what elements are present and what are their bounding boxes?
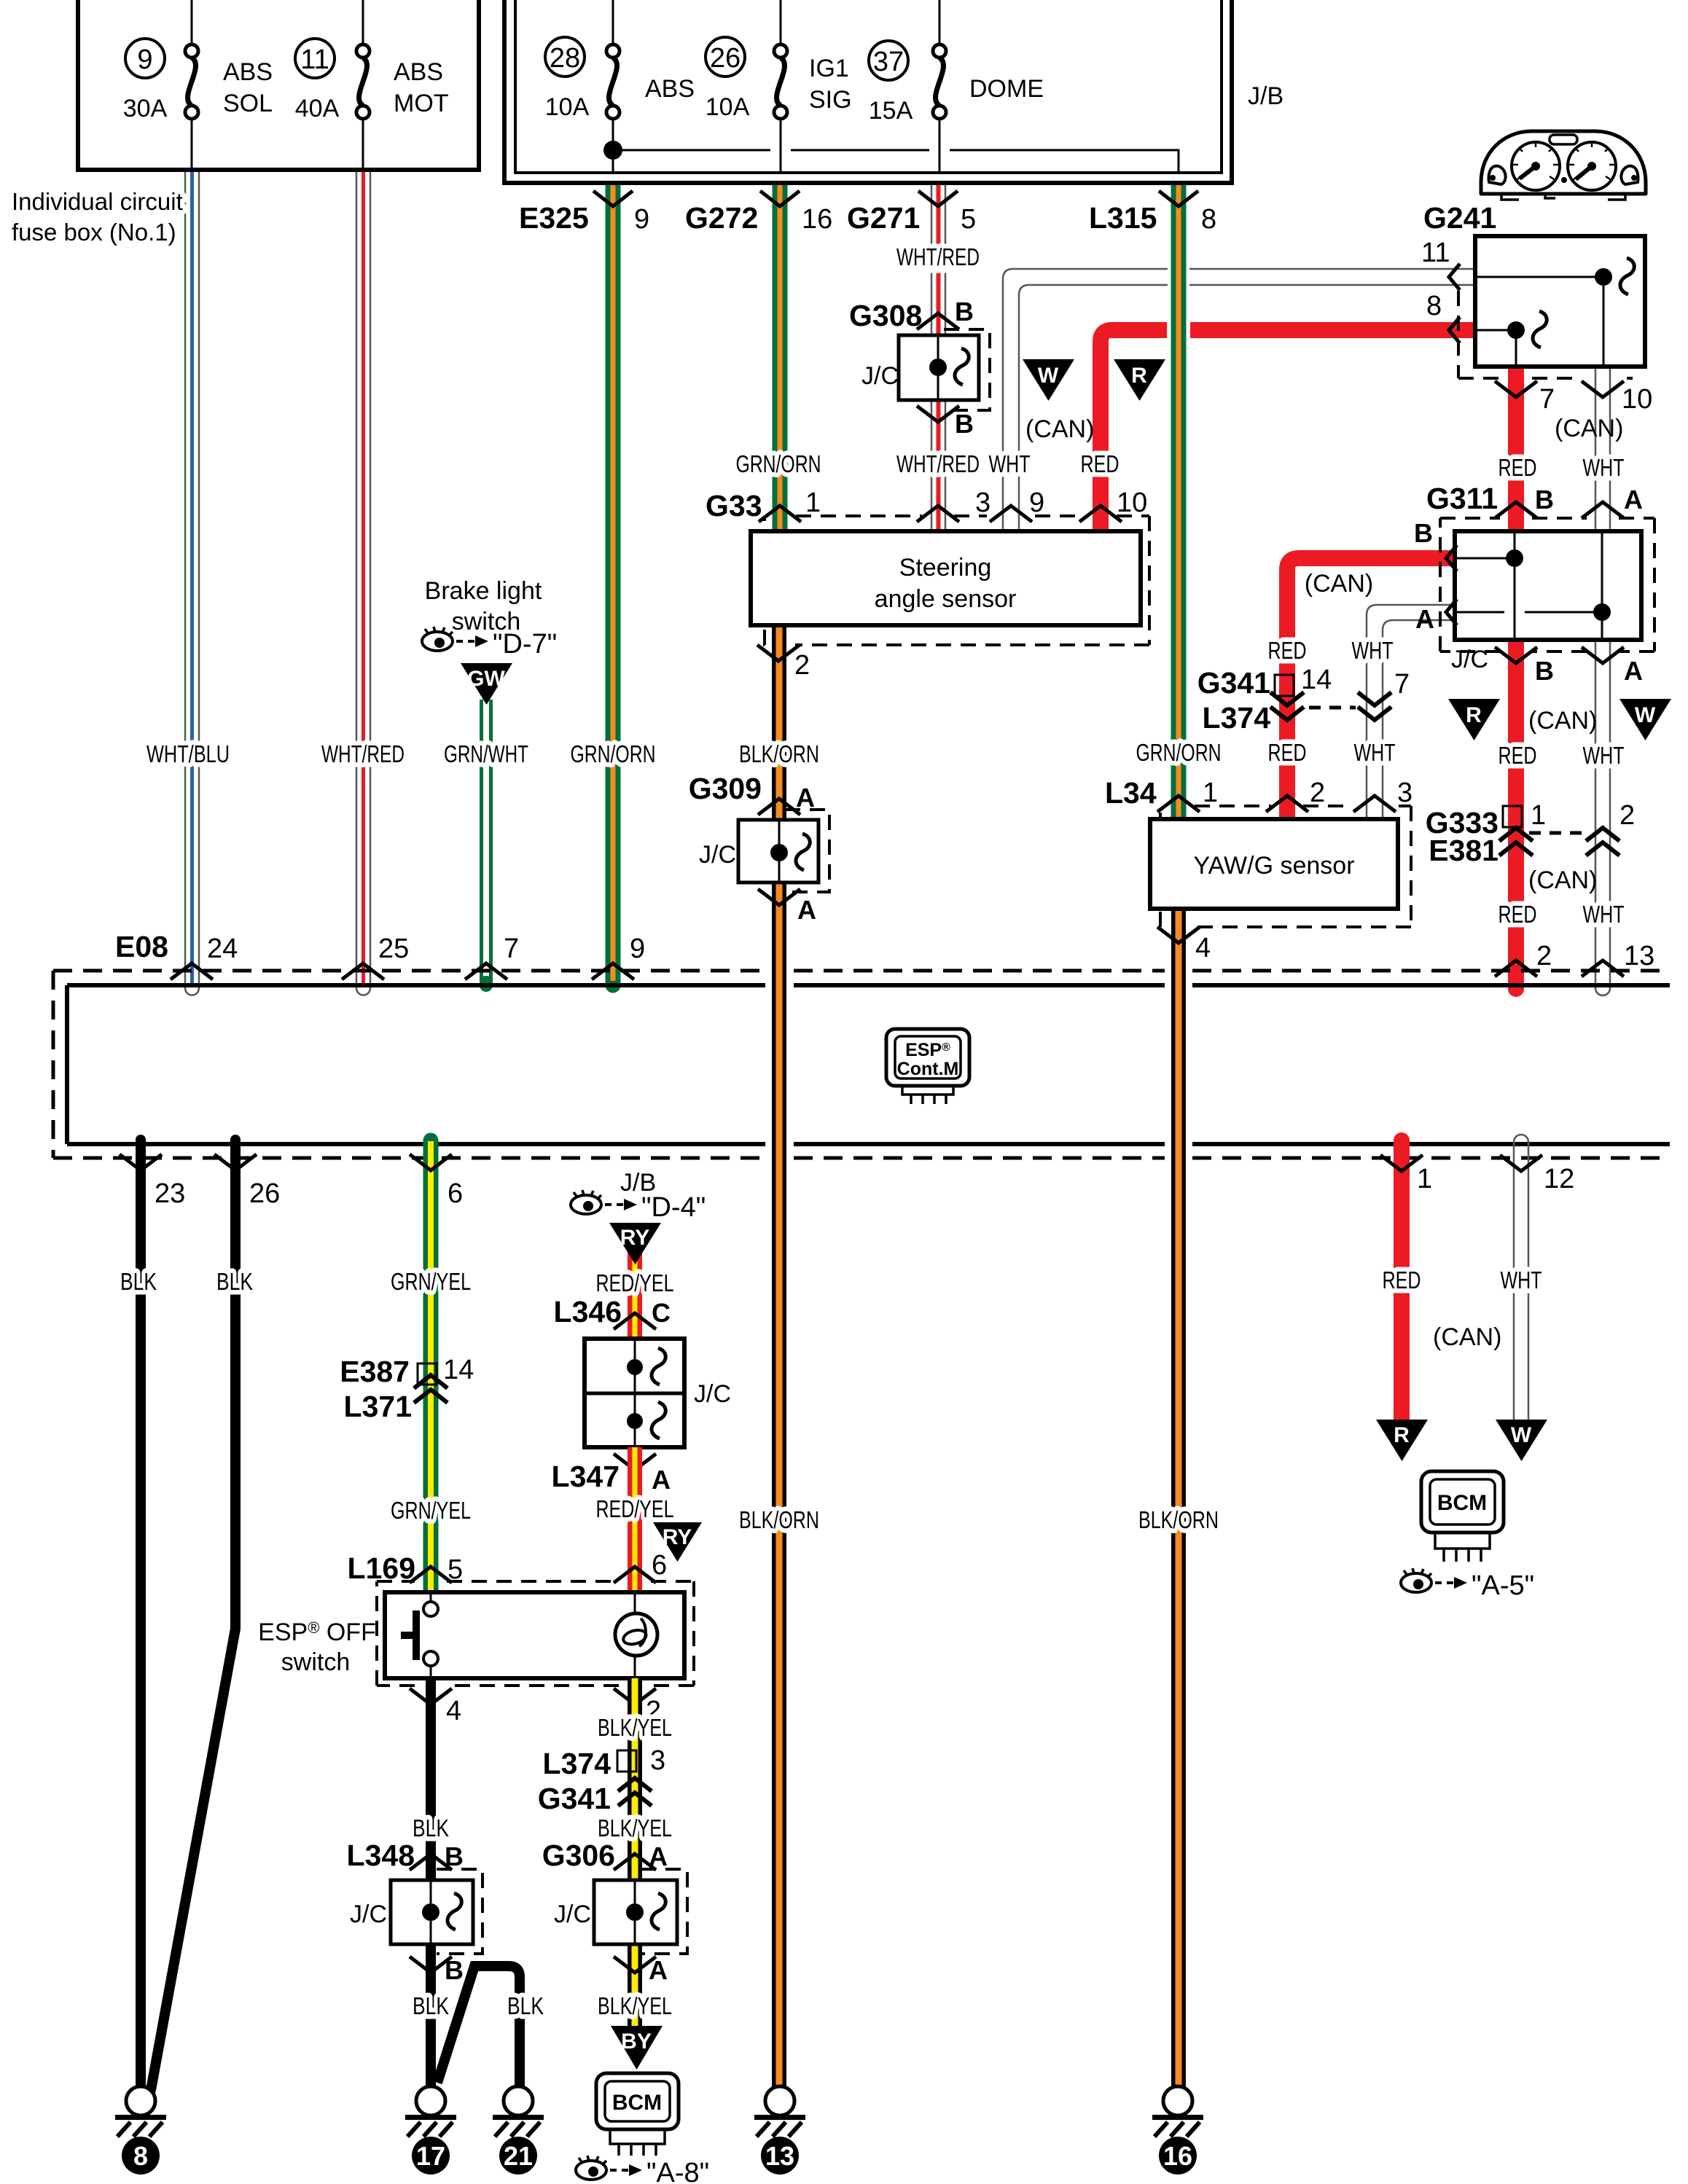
svg-text:B: B bbox=[955, 297, 974, 326]
svg-text:GRN/ORN: GRN/ORN bbox=[736, 450, 821, 477]
svg-text:14: 14 bbox=[1301, 665, 1332, 695]
svg-text:A: A bbox=[797, 895, 816, 925]
svg-text:10A: 10A bbox=[545, 93, 590, 121]
svg-text:GW: GW bbox=[467, 667, 505, 691]
svg-text:BLK: BLK bbox=[120, 1268, 157, 1295]
svg-text:Individual circuit: Individual circuit bbox=[12, 188, 183, 215]
svg-text:RY: RY bbox=[620, 1226, 650, 1250]
BCM icon left bbox=[596, 2073, 679, 2156]
connector L169 pin 5 bbox=[348, 1551, 464, 1585]
svg-text:8: 8 bbox=[1201, 204, 1216, 235]
wire GRN/ORN E325 fuse 28 to ESP pin 9 bbox=[606, 181, 621, 985]
wire WHT G311 pin A lower to G333 connector to ESP pin 13 bbox=[1595, 640, 1610, 995]
G311 J/C box bbox=[1455, 531, 1641, 640]
svg-text:25: 25 bbox=[378, 934, 409, 964]
svg-text:W: W bbox=[1635, 703, 1656, 727]
svg-text:15A: 15A bbox=[869, 97, 913, 125]
svg-text:"A-5": "A-5" bbox=[1472, 1570, 1534, 1601]
L348 pin B bottom bbox=[410, 1955, 464, 1985]
G311 left pin B bbox=[1414, 518, 1457, 571]
svg-text:2: 2 bbox=[794, 650, 810, 681]
wire BLK switch pin 4 to L348 bbox=[426, 1678, 436, 1880]
ESP control module box top edge bbox=[67, 983, 1670, 987]
svg-text:GRN/ORN: GRN/ORN bbox=[571, 740, 656, 767]
ESP control module connector dashed boundary top bbox=[53, 969, 1670, 973]
pin 11 G241 bbox=[1421, 238, 1460, 290]
wire BLK/ORN steering pin 2 through G309 and ESP to ground 13 bbox=[772, 625, 786, 2086]
svg-text:BLK: BLK bbox=[413, 1992, 449, 2019]
svg-text:7: 7 bbox=[1394, 669, 1410, 700]
svg-text:28: 28 bbox=[550, 43, 580, 74]
svg-text:RED: RED bbox=[1268, 739, 1307, 766]
svg-text:WHT/RED: WHT/RED bbox=[896, 243, 980, 270]
G311 left pin A bbox=[1415, 599, 1457, 634]
svg-text:RED: RED bbox=[1499, 742, 1537, 769]
wire RED/YEL from L347 to switch pin 6 bbox=[628, 1447, 642, 1592]
svg-text:ABS: ABS bbox=[223, 58, 273, 86]
svg-text:(CAN): (CAN) bbox=[1528, 707, 1597, 735]
wire GRN/ORN G272 fuse 26 to steering angle sensor pin 1 bbox=[773, 181, 788, 531]
svg-text:"D-7": "D-7" bbox=[493, 629, 557, 659]
svg-text:8: 8 bbox=[1426, 291, 1442, 321]
svg-text:30A: 30A bbox=[123, 95, 168, 122]
svg-text:E08: E08 bbox=[115, 930, 168, 963]
svg-text:37: 37 bbox=[873, 47, 904, 77]
svg-text:A: A bbox=[649, 1841, 668, 1871]
svg-text:BLK/YEL: BLK/YEL bbox=[598, 1714, 672, 1741]
triangle flag RY feed from J/B bbox=[609, 1223, 661, 1264]
ground 21 bbox=[493, 2086, 544, 2175]
svg-text:6: 6 bbox=[652, 1550, 667, 1581]
svg-text:1: 1 bbox=[1417, 1164, 1432, 1194]
switch pin 4 bbox=[410, 1688, 461, 1726]
svg-text:L34: L34 bbox=[1105, 776, 1157, 810]
svg-text:L346: L346 bbox=[554, 1295, 622, 1328]
svg-text:13: 13 bbox=[765, 2141, 794, 2171]
wire BLK ESP pin 23 to ground 8 bbox=[136, 1140, 146, 2086]
svg-text:9: 9 bbox=[634, 204, 649, 235]
triangle flag W near G308 bbox=[1023, 359, 1074, 401]
svg-text:R: R bbox=[1466, 703, 1482, 727]
svg-text:RED: RED bbox=[1081, 450, 1120, 477]
ESP pin 26 bbox=[214, 1154, 280, 1209]
svg-text:L374: L374 bbox=[1203, 701, 1271, 735]
instrument cluster icon bbox=[1481, 131, 1646, 200]
svg-text:9: 9 bbox=[137, 44, 152, 75]
wire WHT/RED from fuse 11 to ESP pin 25 bbox=[356, 170, 370, 995]
connector G33 of steering angle sensor bbox=[706, 488, 1149, 645]
svg-text:angle sensor: angle sensor bbox=[875, 585, 1017, 613]
triangle flag W to BCM bbox=[1496, 1420, 1547, 1461]
ESP OFF switch connector dashed outline bbox=[377, 1581, 694, 1686]
svg-text:G271: G271 bbox=[847, 201, 920, 235]
ESP Cont.M icon bbox=[886, 1029, 969, 1104]
svg-text:L374: L374 bbox=[543, 1747, 611, 1780]
connector G311 labels bbox=[1426, 482, 1643, 518]
wire inside J/B from fuse 28 junction to L315 bbox=[603, 141, 622, 160]
ESP control module box left edge bbox=[52, 971, 55, 1158]
junction connector L346/L347 J/C double bbox=[585, 1339, 731, 1447]
svg-text:J/C: J/C bbox=[350, 1901, 387, 1928]
wire BLK ESP pin 26 to ground 8 (diagonal) bbox=[151, 1140, 235, 2090]
svg-text:(CAN): (CAN) bbox=[1305, 570, 1373, 598]
wire RED G311 pin B to G341 connector to YAW/G pin 2 (CAN) bbox=[1287, 558, 1453, 819]
wire BLK/YEL switch pin 2 to BY flag bbox=[628, 1678, 642, 2040]
svg-text:G33: G33 bbox=[706, 489, 762, 522]
svg-text:ABS: ABS bbox=[394, 58, 443, 86]
svg-text:J/C: J/C bbox=[699, 841, 736, 869]
svg-text:W: W bbox=[1038, 364, 1059, 388]
svg-text:G272: G272 bbox=[685, 201, 758, 235]
svg-text:12: 12 bbox=[1544, 1164, 1574, 1194]
svg-text:BCM: BCM bbox=[1437, 1491, 1487, 1515]
svg-text:17: 17 bbox=[416, 2141, 445, 2171]
connector L346 pin C bbox=[554, 1295, 671, 1329]
triangle flag R to BCM bbox=[1376, 1420, 1428, 1461]
svg-text:BCM: BCM bbox=[612, 2091, 662, 2115]
eye reference to A-5 bbox=[1401, 1568, 1534, 1601]
connector G271 pin 5 bbox=[847, 191, 976, 235]
svg-text:16: 16 bbox=[1163, 2141, 1192, 2171]
ESP OFF switch box bbox=[385, 1592, 684, 1678]
svg-text:BLK: BLK bbox=[507, 1992, 544, 2019]
svg-text:2: 2 bbox=[1310, 778, 1325, 808]
svg-text:GRN/YEL: GRN/YEL bbox=[391, 1268, 471, 1295]
ESP pin 2 (RED) bbox=[1495, 941, 1552, 976]
svg-text:2: 2 bbox=[1536, 941, 1552, 971]
svg-text:MOT: MOT bbox=[394, 90, 449, 117]
G308 pin B bottom bbox=[917, 406, 974, 439]
wire BLK jumper ground 17 to ground 21 bbox=[437, 1966, 520, 2086]
svg-text:BLK/ORN: BLK/ORN bbox=[739, 1506, 819, 1533]
svg-text:fuse box (No.1): fuse box (No.1) bbox=[12, 219, 176, 246]
svg-text:GRN/WHT: GRN/WHT bbox=[444, 740, 528, 767]
svg-text:C: C bbox=[652, 1298, 671, 1328]
svg-text:1: 1 bbox=[1531, 800, 1546, 831]
svg-text:WHT: WHT bbox=[1583, 742, 1625, 769]
eye reference to A-8 bbox=[576, 2156, 709, 2184]
svg-text:WHT: WHT bbox=[1352, 637, 1394, 664]
svg-text:"A-8": "A-8" bbox=[646, 2158, 709, 2184]
svg-text:RY: RY bbox=[663, 1525, 692, 1549]
svg-text:WHT: WHT bbox=[1583, 901, 1625, 928]
svg-text:WHT/RED: WHT/RED bbox=[321, 740, 405, 767]
connector E325 pin 9 bbox=[519, 191, 649, 235]
wire RED G241 pin 7 to G311 pin B (CAN) bbox=[1508, 367, 1524, 531]
svg-text:L315: L315 bbox=[1089, 201, 1157, 235]
svg-text:switch: switch bbox=[281, 1648, 350, 1676]
eye reference to D-4 bbox=[571, 1190, 706, 1223]
svg-text:Cont.M: Cont.M bbox=[897, 1059, 959, 1079]
svg-text:WHT: WHT bbox=[1501, 1267, 1542, 1293]
svg-text:RED: RED bbox=[1499, 454, 1537, 481]
junction box J/B bbox=[504, 0, 1232, 183]
svg-text:WHT: WHT bbox=[1354, 739, 1396, 766]
svg-text:R: R bbox=[1131, 364, 1147, 388]
ESP pin 1 RED CAN to BCM bbox=[1380, 1140, 1432, 1421]
BCM icon right bbox=[1421, 1471, 1504, 1562]
ESP pin 13 (WHT) bbox=[1582, 941, 1654, 976]
svg-text:1: 1 bbox=[805, 488, 821, 518]
svg-text:E387: E387 bbox=[340, 1355, 410, 1388]
svg-text:L371: L371 bbox=[344, 1390, 412, 1423]
connector L348 pin B top bbox=[347, 1839, 464, 1872]
svg-text:13: 13 bbox=[1624, 941, 1654, 971]
individual circuit fuse box No.1 bbox=[78, 0, 479, 170]
svg-text:G308: G308 bbox=[849, 299, 922, 332]
svg-text:10A: 10A bbox=[706, 93, 750, 121]
svg-text:BLK/YEL: BLK/YEL bbox=[598, 1815, 672, 1841]
wire WHT/BLU from fuse 9 to ESP pin 24 bbox=[185, 170, 199, 995]
pin 8 G241 bbox=[1426, 291, 1460, 343]
svg-text:J/C: J/C bbox=[1451, 646, 1488, 673]
svg-text:ABS: ABS bbox=[645, 75, 695, 103]
fuse 9 30A bbox=[123, 39, 198, 122]
svg-text:10: 10 bbox=[1117, 488, 1147, 518]
svg-text:A: A bbox=[652, 1465, 671, 1495]
ESP pin 6 bbox=[410, 1154, 463, 1209]
svg-text:5: 5 bbox=[961, 204, 976, 235]
svg-text:9: 9 bbox=[630, 934, 645, 964]
wire WHT/RED G271 fuse 37 to steering angle sensor pin 3 via G308 bbox=[931, 181, 945, 531]
svg-text:A: A bbox=[1415, 604, 1434, 634]
connector L347 pin A bbox=[552, 1454, 671, 1495]
svg-text:4: 4 bbox=[446, 1696, 461, 1726]
svg-text:B: B bbox=[1535, 656, 1554, 686]
wire BLK/ORN YAW/G pin 4 through ESP to ground 16 bbox=[1171, 909, 1186, 2086]
pin 7 G241 (CAN RED down) bbox=[1495, 381, 1555, 415]
svg-text:L348: L348 bbox=[347, 1839, 415, 1872]
fuse 11 40A bbox=[295, 39, 370, 122]
steering sensor pin 2 bbox=[757, 645, 810, 681]
wire BLK L348 to ground 17 bbox=[426, 1944, 436, 2086]
triangle flag R bbox=[1114, 359, 1165, 401]
triangle flag W bbox=[1619, 699, 1671, 740]
svg-text:B: B bbox=[445, 1841, 464, 1871]
E08 pin 25 bbox=[342, 934, 409, 979]
svg-text:"D-4": "D-4" bbox=[641, 1192, 706, 1223]
fuse 28 10A bbox=[545, 37, 620, 121]
label ESP OFF switch bbox=[258, 1619, 376, 1676]
steering angle sensor box bbox=[751, 531, 1141, 625]
svg-text:J/C: J/C bbox=[694, 1380, 731, 1408]
ground 16 bbox=[1152, 2086, 1203, 2175]
svg-text:1: 1 bbox=[1203, 778, 1218, 808]
ground 13 bbox=[754, 2086, 805, 2175]
svg-text:G309: G309 bbox=[689, 772, 762, 805]
svg-text:B: B bbox=[445, 1955, 464, 1985]
ESP pin 12 WHT CAN to BCM bbox=[1500, 1135, 1574, 1421]
junction connector G308 J/C bbox=[861, 329, 990, 410]
svg-text:14: 14 bbox=[443, 1355, 474, 1385]
pin 10 G241 (WHT down) bbox=[1582, 381, 1652, 415]
E08 pin 24 bbox=[171, 934, 238, 979]
junction connector G306 J/C bbox=[554, 1869, 687, 1954]
svg-text:21: 21 bbox=[504, 2141, 533, 2171]
switch pin 2 bbox=[614, 1688, 661, 1726]
svg-text:RED: RED bbox=[1383, 1267, 1421, 1293]
svg-text:E381: E381 bbox=[1429, 834, 1499, 867]
svg-text:G341: G341 bbox=[1197, 666, 1270, 700]
svg-text:3: 3 bbox=[975, 488, 990, 518]
svg-text:10: 10 bbox=[1622, 384, 1652, 415]
G311 bottom pins B A bbox=[1451, 646, 1643, 686]
svg-text:DOME: DOME bbox=[969, 75, 1044, 103]
svg-text:23: 23 bbox=[155, 1178, 185, 1209]
G306 pin A bottom bbox=[614, 1955, 668, 1985]
svg-text:BLK: BLK bbox=[413, 1815, 449, 1841]
svg-text:BLK/ORN: BLK/ORN bbox=[1138, 1506, 1219, 1533]
triangle flag RY small bbox=[653, 1522, 702, 1562]
wire RED steering pin 10 up and right to G241 pin 8 (CAN) bbox=[1101, 330, 1474, 531]
connector L315 pin 8 bbox=[1089, 191, 1216, 235]
svg-text:B: B bbox=[1414, 518, 1433, 548]
svg-text:R: R bbox=[1394, 1423, 1410, 1447]
inline connector E387 L371 pin 14 bbox=[340, 1355, 474, 1423]
svg-text:WHT/RED: WHT/RED bbox=[896, 450, 980, 477]
svg-text:GRN/ORN: GRN/ORN bbox=[1136, 739, 1222, 766]
svg-text:7: 7 bbox=[504, 934, 519, 964]
svg-text:Brake light: Brake light bbox=[425, 577, 542, 605]
fuse 37 15A bbox=[869, 41, 946, 125]
svg-text:RED: RED bbox=[1499, 901, 1537, 928]
svg-text:7: 7 bbox=[1539, 384, 1555, 415]
svg-text:YAW/G sensor: YAW/G sensor bbox=[1193, 852, 1354, 880]
triangle flag GW brake light switch feed bbox=[461, 663, 512, 705]
svg-text:26: 26 bbox=[710, 43, 741, 74]
E08 pin 7 bbox=[465, 934, 519, 979]
svg-text:A: A bbox=[1624, 656, 1643, 686]
svg-text:G241: G241 bbox=[1423, 201, 1496, 235]
svg-text:RED/YEL: RED/YEL bbox=[596, 1495, 674, 1522]
brake light switch label bbox=[425, 577, 542, 635]
svg-text:E325: E325 bbox=[519, 201, 589, 235]
svg-text:BLK/YEL: BLK/YEL bbox=[598, 1992, 672, 2019]
svg-text:RED/YEL: RED/YEL bbox=[596, 1269, 674, 1296]
fuse 26 10A bbox=[706, 37, 787, 121]
wire WHT steering pin 9 up and right to G241 pin 11 bbox=[1003, 269, 1473, 531]
svg-text:B: B bbox=[955, 409, 974, 439]
connector G306 pin A top bbox=[542, 1839, 668, 1872]
connector G308 pin B top bbox=[849, 297, 974, 332]
svg-text:(CAN): (CAN) bbox=[1528, 866, 1597, 894]
svg-text:B: B bbox=[1535, 485, 1554, 514]
wire GRN/WHT from brake light switch to ESP pin 7 bbox=[480, 700, 493, 985]
svg-text:(CAN): (CAN) bbox=[1433, 1323, 1501, 1351]
svg-text:J/C: J/C bbox=[861, 362, 899, 390]
svg-text:40A: 40A bbox=[295, 95, 340, 122]
ESP control module connector dashed boundary bottom bbox=[53, 1156, 1670, 1160]
wire WHT G311 pin A to G341 pin 7 to YAW/G pin 3 bbox=[1367, 605, 1453, 819]
svg-text:G311: G311 bbox=[1426, 482, 1498, 515]
svg-text:RED: RED bbox=[1268, 637, 1307, 664]
svg-text:11: 11 bbox=[300, 44, 329, 75]
svg-text:SOL: SOL bbox=[223, 90, 273, 117]
inline connector L374 G341 pin 3 bbox=[538, 1745, 665, 1815]
connector G272 pin 16 bbox=[685, 191, 832, 235]
svg-text:J/C: J/C bbox=[554, 1901, 591, 1928]
svg-text:SIG: SIG bbox=[809, 86, 852, 114]
svg-text:L347: L347 bbox=[552, 1460, 620, 1493]
svg-text:(CAN): (CAN) bbox=[1025, 415, 1094, 443]
ESP pin 23 bbox=[120, 1154, 185, 1209]
svg-text:2: 2 bbox=[1619, 800, 1635, 831]
connector G309 pin A top bbox=[689, 772, 815, 815]
G309 pin A bottom bbox=[758, 889, 816, 925]
svg-text:11: 11 bbox=[1421, 238, 1450, 268]
triangle flag R bbox=[1448, 699, 1500, 740]
svg-text:BLK/ORN: BLK/ORN bbox=[739, 740, 819, 767]
inline connector G341 L374 pins 14 and 7 bbox=[1197, 665, 1410, 735]
svg-text:6: 6 bbox=[448, 1178, 463, 1209]
YAW/G pin 4 bbox=[1157, 927, 1211, 963]
G241 connector box bbox=[1458, 236, 1645, 378]
ESP control module box bottom edge bbox=[67, 1142, 1670, 1146]
svg-text:4: 4 bbox=[1195, 933, 1211, 963]
svg-text:G341: G341 bbox=[538, 1782, 611, 1815]
svg-text:WHT: WHT bbox=[989, 450, 1031, 477]
svg-text:IG1: IG1 bbox=[809, 55, 849, 82]
svg-text:9: 9 bbox=[1029, 488, 1044, 518]
svg-text:WHT: WHT bbox=[1583, 454, 1625, 481]
wire WHT G241 pin 10 to G311 pin A bbox=[1595, 367, 1610, 531]
YAW/G sensor box bbox=[1150, 819, 1398, 909]
triangle flag BY to BCM bbox=[611, 2026, 663, 2070]
svg-text:J/B: J/B bbox=[1248, 82, 1283, 110]
connector L34 of YAW/G sensor bbox=[1105, 776, 1412, 927]
svg-text:3: 3 bbox=[1397, 778, 1412, 808]
svg-text:24: 24 bbox=[207, 934, 238, 964]
wire GRN/YEL ESP pin 6 to ESP OFF switch pin 5 bbox=[423, 1140, 439, 1592]
eye reference to D-7 bbox=[422, 627, 557, 659]
svg-text:A: A bbox=[796, 783, 815, 813]
svg-text:WHT/BLU: WHT/BLU bbox=[146, 740, 230, 767]
svg-text:8: 8 bbox=[133, 2141, 148, 2171]
svg-text:BY: BY bbox=[621, 2030, 652, 2054]
svg-text:(CAN): (CAN) bbox=[1555, 415, 1623, 442]
svg-text:3: 3 bbox=[650, 1745, 665, 1776]
wire RED G311 pin B lower to G333 connector to ESP pin 2 (CAN) bbox=[1508, 640, 1524, 989]
svg-text:W: W bbox=[1511, 1423, 1532, 1447]
E08 pin 9 bbox=[592, 934, 645, 979]
junction connector G309 J/C bbox=[699, 810, 829, 892]
svg-text:GRN/YEL: GRN/YEL bbox=[391, 1497, 471, 1524]
svg-text:A: A bbox=[1624, 485, 1643, 514]
switch pin 6 chevron bbox=[614, 1550, 667, 1583]
connector G333 E381 bbox=[1426, 800, 1635, 867]
svg-text:G306: G306 bbox=[542, 1839, 615, 1872]
svg-text:26: 26 bbox=[249, 1178, 280, 1209]
ground 8 bbox=[115, 2086, 166, 2175]
svg-text:Steering: Steering bbox=[899, 554, 992, 582]
G311 J/C connector dashed outline bbox=[1440, 518, 1654, 651]
ground 17 bbox=[405, 2086, 456, 2175]
svg-text:A: A bbox=[649, 1955, 668, 1985]
wire RED/YEL from RY to L346 bbox=[628, 1239, 642, 1339]
svg-text:BLK: BLK bbox=[216, 1268, 253, 1295]
wire GRN/ORN L315 J/B to YAW/G sensor pin 1 bbox=[1171, 181, 1187, 819]
junction connector L348 J/C bbox=[350, 1869, 482, 1954]
svg-text:16: 16 bbox=[802, 204, 832, 235]
